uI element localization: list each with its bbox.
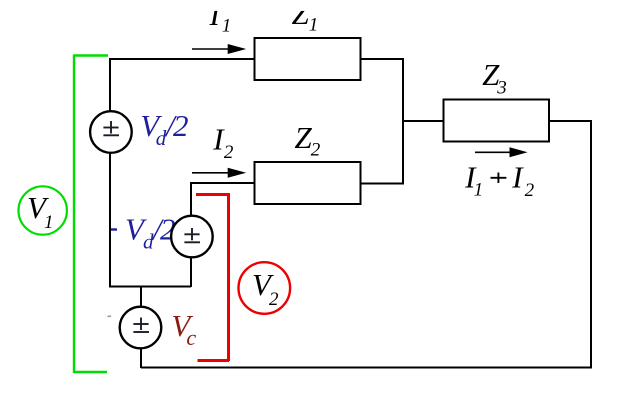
minus of -Vd/2	[111, 228, 117, 230]
label V1	[27, 190, 54, 233]
resistor Z3 box	[444, 100, 550, 142]
label I2	[212, 122, 234, 164]
svg-text:3: 3	[496, 78, 507, 99]
wire left vertical upper	[109, 58, 111, 112]
source Vc plusminus	[133, 318, 149, 333]
label Z1 (top, clipped)	[292, 0, 319, 36]
wire mid vertical Z1-Z2 join	[402, 58, 404, 185]
svg-text:2: 2	[525, 180, 535, 201]
plus sign of I1+I2	[491, 173, 507, 184]
wire bottom-left horizontal	[109, 286, 191, 288]
label Vd/2 (blue)	[140, 108, 188, 150]
wire top main horizontal	[110, 58, 255, 60]
svg-text:1: 1	[222, 16, 232, 37]
label I1+I2	[464, 160, 534, 202]
svg-text:I: I	[511, 160, 524, 195]
svg-text:Z: Z	[295, 120, 313, 155]
wire Vc stub bottom	[140, 348, 142, 368]
wire bottom long horizontal	[141, 367, 592, 369]
svg-text:2: 2	[173, 108, 189, 143]
wire Z2 right	[361, 183, 404, 185]
wire source2 bottom vertical	[190, 256, 192, 287]
label I1 (top, clipped)	[209, 0, 232, 37]
wire source2 top vertical	[190, 183, 192, 216]
wire Vc stub top	[140, 286, 142, 307]
label Z3	[482, 57, 507, 99]
arrow I1+I2	[475, 147, 528, 157]
label V2	[252, 267, 279, 310]
red bracket V2	[196, 193, 229, 361]
stray mark left of Vc	[108, 315, 112, 318]
svg-text:2: 2	[269, 289, 279, 310]
label Vc (maroon)	[171, 308, 196, 350]
wire Z3 right	[548, 120, 592, 122]
node V2 red circle	[238, 262, 290, 314]
node V1 green circle	[19, 186, 67, 234]
wire Z1 right	[361, 58, 404, 60]
source Vc circle	[120, 307, 162, 349]
arrow I1	[192, 44, 246, 54]
wire right vertical	[590, 120, 592, 368]
green bracket V1	[74, 55, 108, 374]
source Vd/2 plusminus	[103, 121, 119, 135]
resistor Z1 box	[255, 38, 361, 80]
resistor Z2 box	[255, 162, 361, 204]
source Vd/2 circle	[90, 111, 132, 153]
svg-text:2: 2	[224, 142, 234, 163]
wire Z2 left	[190, 182, 255, 184]
source -Vd/2 circle	[171, 216, 213, 258]
svg-text:1: 1	[309, 15, 319, 36]
wire left vertical lower	[109, 152, 111, 287]
svg-text:c: c	[186, 325, 196, 350]
clip band hiding tops of I1/Z1	[150, 0, 400, 11]
source -Vd/2 plusminus	[184, 228, 200, 242]
svg-text:1: 1	[44, 212, 54, 233]
wire Z3 left	[403, 120, 444, 122]
svg-text:1: 1	[474, 180, 484, 201]
label -Vd/2 (blue)	[125, 212, 176, 254]
label Z2	[295, 120, 321, 161]
svg-text:2: 2	[311, 140, 321, 161]
arrow I2	[192, 168, 246, 178]
